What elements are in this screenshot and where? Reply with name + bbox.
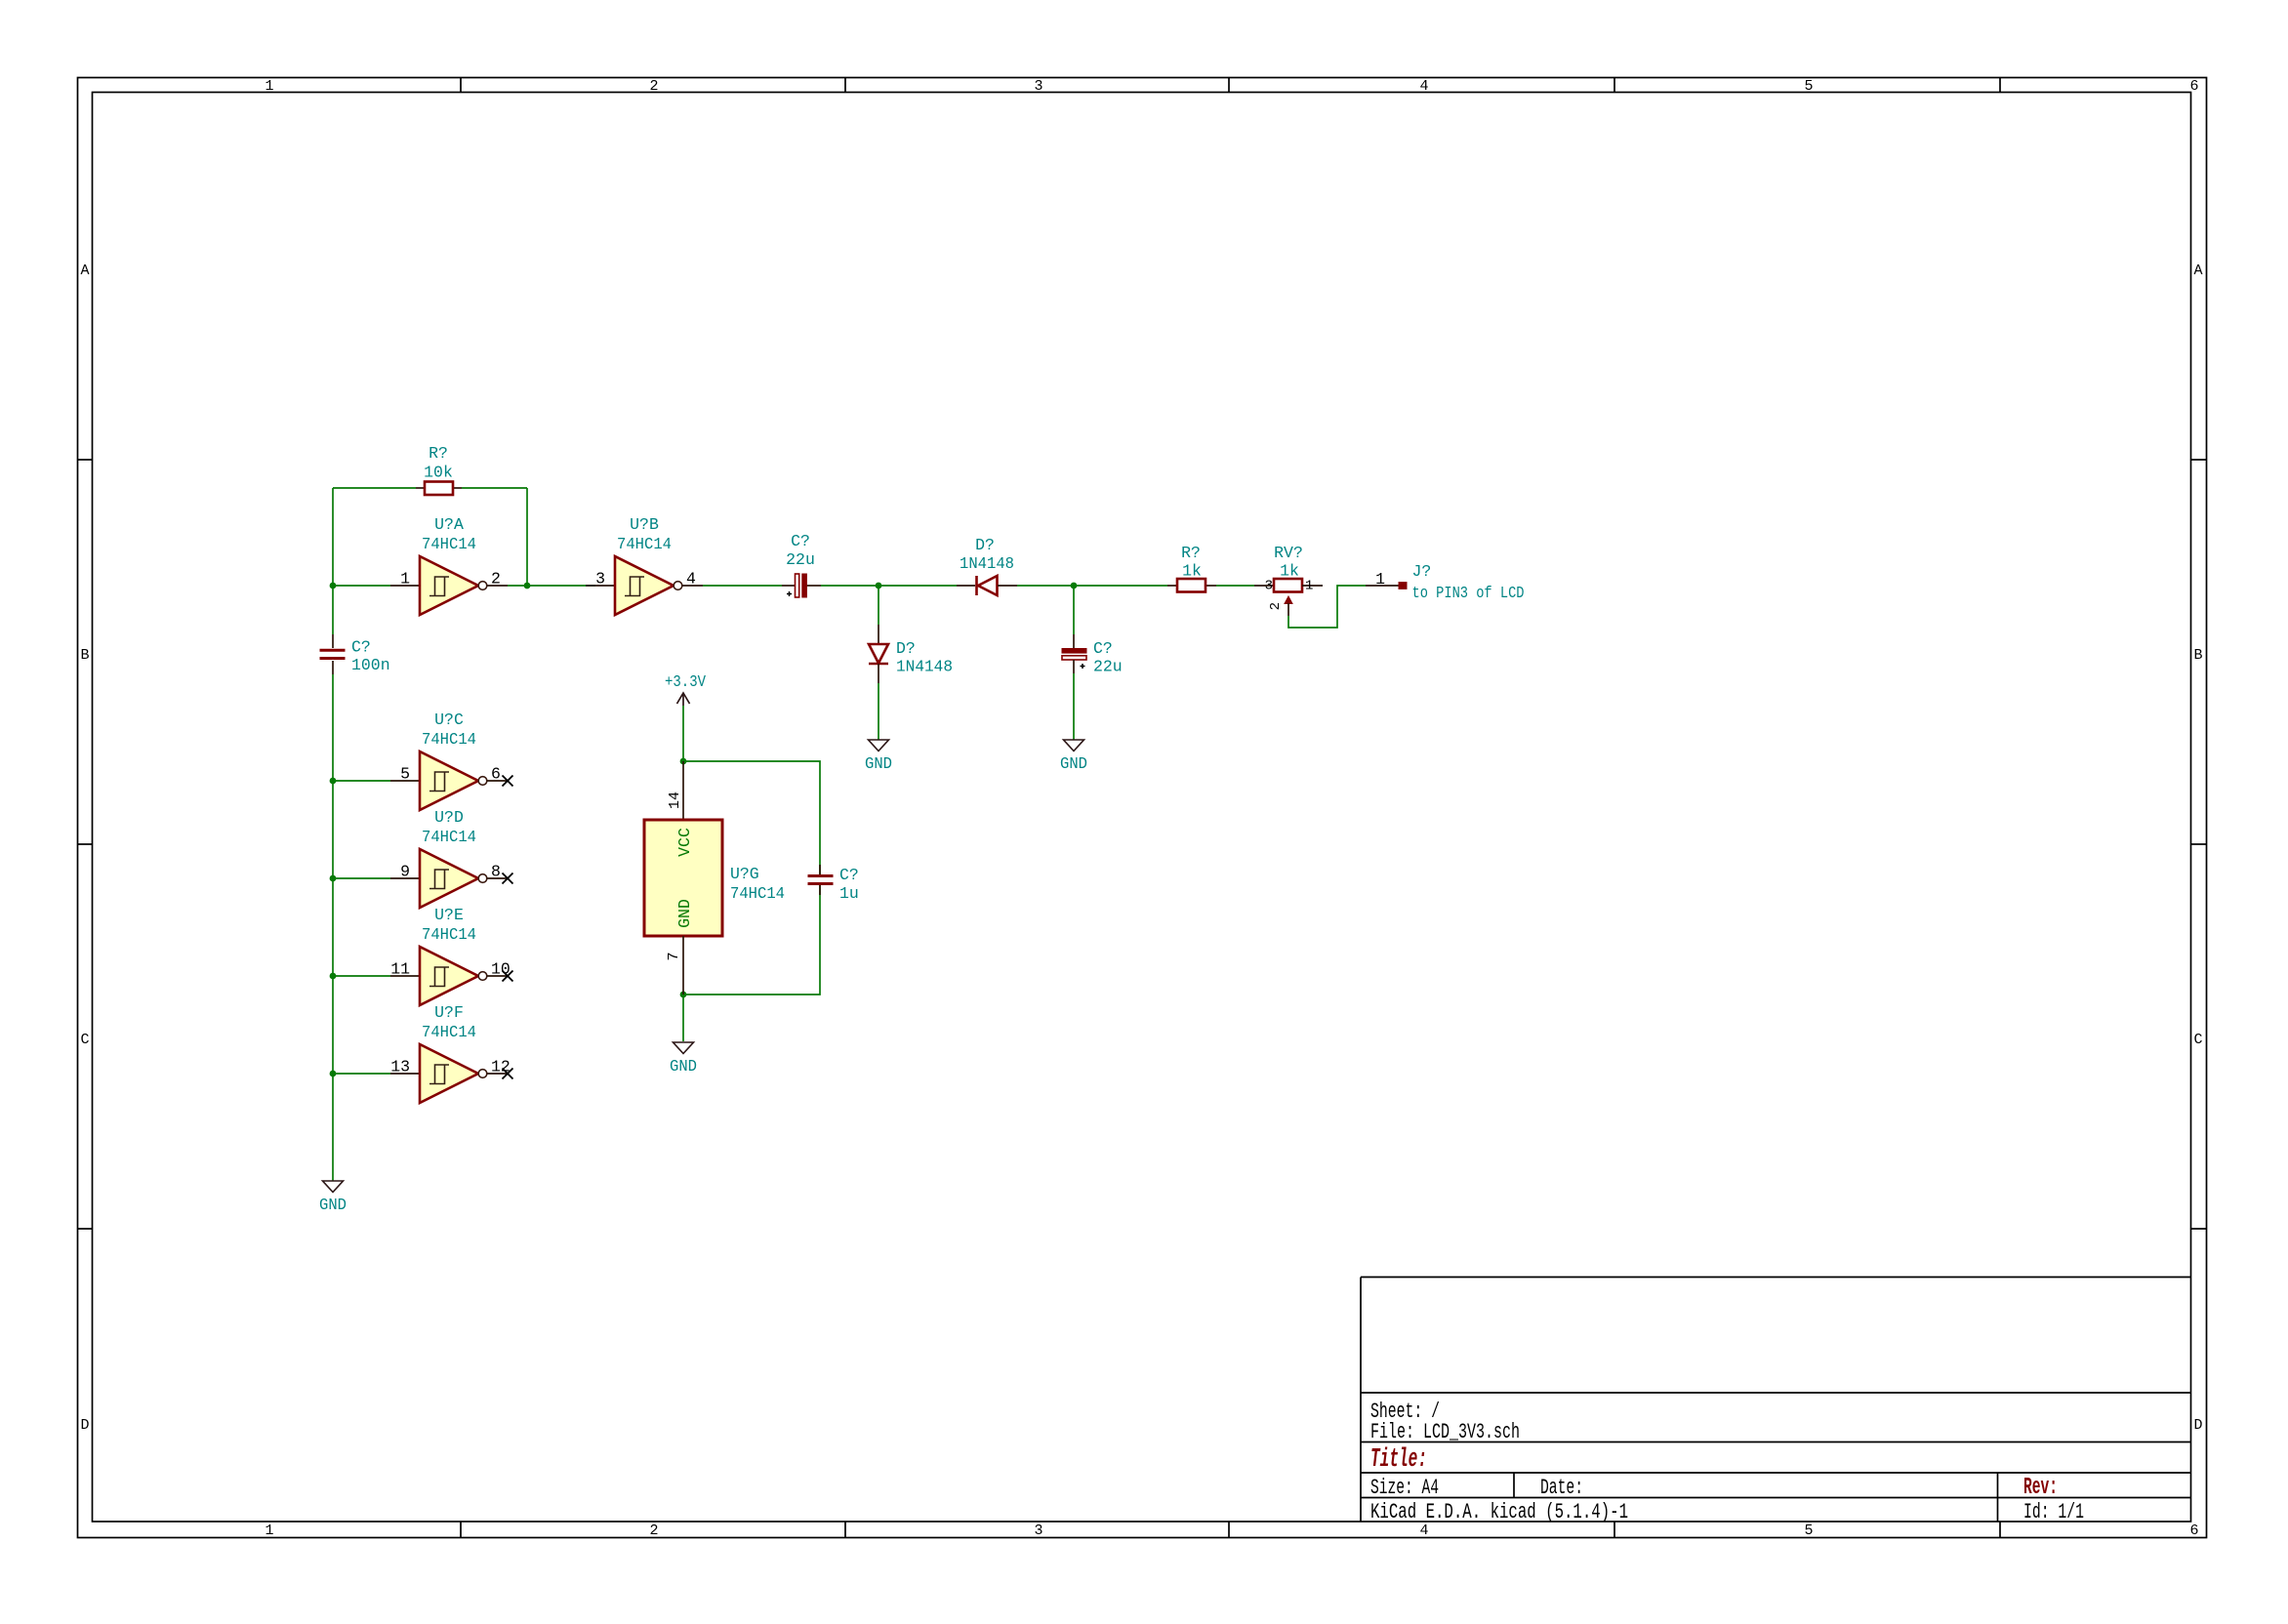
svg-text:C?: C? <box>1093 639 1113 658</box>
svg-text:VCC: VCC <box>675 828 694 857</box>
junction VCC node U?G <box>680 758 687 765</box>
svg-text:22u: 22u <box>1093 658 1123 676</box>
inverter U?A 74HC14 <box>390 515 508 615</box>
svg-text:B: B <box>80 647 89 664</box>
svg-text:Id: 1/1: Id: 1/1 <box>2023 1500 2084 1524</box>
capacitor C? 22u (output filter) <box>1062 634 1123 676</box>
power symbol +3.3V <box>665 672 706 706</box>
wire RV? wiper to J? pin1 <box>1288 586 1366 628</box>
junction GND node U?G <box>680 992 687 998</box>
no-connect x on pin 8 <box>503 873 513 884</box>
svg-text:D?: D? <box>896 639 916 658</box>
svg-text:GND: GND <box>865 754 892 773</box>
svg-text:Title:: Title: <box>1370 1445 1427 1475</box>
svg-text:C: C <box>2193 1032 2202 1048</box>
svg-text:J?: J? <box>1412 562 1432 581</box>
pot pin 1 stub <box>1302 585 1323 587</box>
wire GND node down to GND symbol <box>682 995 684 1041</box>
title block <box>1361 1278 2191 1522</box>
diode D? 1N4148 (vertical) <box>869 625 953 683</box>
svg-text:Rev:: Rev: <box>2023 1475 2058 1501</box>
wire bus to U?C pin5 <box>333 780 390 782</box>
svg-text:D: D <box>2193 1417 2202 1434</box>
svg-text:U?A: U?A <box>434 515 464 534</box>
svg-text:4: 4 <box>1419 78 1428 95</box>
inverter U?E 74HC14 <box>390 906 513 1005</box>
wire bus to U?D pin9 <box>333 877 390 879</box>
junction node B (U?A output) <box>524 583 531 589</box>
wire feedback top left <box>333 487 416 489</box>
svg-text:74HC14: 74HC14 <box>422 535 476 553</box>
wire left vertical bus down to GND <box>332 674 334 1181</box>
wire C? 1u bottom to GND node <box>683 885 820 995</box>
capacitor C? 100n <box>320 634 390 674</box>
capacitor C? 1u (decoupling) <box>808 865 859 903</box>
svg-text:R?: R? <box>1181 544 1201 562</box>
svg-text:1: 1 <box>400 570 410 589</box>
diode D? 1N4148 (horizontal, cathode left) <box>957 536 1017 595</box>
junction node A (osc input) <box>330 583 337 589</box>
svg-text:7: 7 <box>666 952 682 960</box>
svg-text:U?F: U?F <box>434 1003 464 1022</box>
svg-text:R?: R? <box>429 444 448 463</box>
connector J? (to PIN3 of LCD) <box>1366 562 1525 602</box>
svg-text:1: 1 <box>265 78 273 95</box>
svg-text:GND: GND <box>1060 754 1087 773</box>
svg-text:13: 13 <box>390 1058 410 1076</box>
wire branch down to C? 22u vertical <box>1073 586 1075 634</box>
svg-text:9: 9 <box>400 863 410 881</box>
svg-text:A: A <box>2193 263 2202 279</box>
svg-text:2: 2 <box>649 1522 658 1539</box>
svg-text:5: 5 <box>1804 1522 1813 1539</box>
svg-text:1: 1 <box>265 1522 273 1539</box>
svg-text:C?: C? <box>791 532 810 550</box>
svg-text:C?: C? <box>839 866 859 884</box>
svg-text:Size: A4: Size: A4 <box>1370 1476 1439 1500</box>
pin 7 GND <box>682 936 684 995</box>
svg-text:1k: 1k <box>1280 562 1299 581</box>
wire C? 22u to GND <box>1073 673 1075 740</box>
svg-text:U?E: U?E <box>434 906 464 924</box>
wire bus to U?F pin13 <box>333 1073 390 1075</box>
inverter U?C 74HC14 <box>390 710 513 810</box>
svg-text:1k: 1k <box>1182 562 1202 581</box>
junction bus tap U?F <box>330 1071 337 1077</box>
svg-text:1: 1 <box>1305 579 1313 594</box>
wire node A to U?A pin1 <box>333 585 390 587</box>
capacitor C? 22u (series pump cap) <box>782 532 821 597</box>
junction node D (rectified output) <box>1071 583 1078 589</box>
svg-text:1u: 1u <box>839 884 859 903</box>
wire feedback top right <box>462 487 527 489</box>
svg-text:A: A <box>80 263 89 279</box>
svg-text:2: 2 <box>491 570 501 589</box>
inverter U?D 74HC14 <box>390 808 513 908</box>
svg-text:KiCad E.D.A. kicad (5.1.4)-1: KiCad E.D.A. kicad (5.1.4)-1 <box>1370 1500 1628 1524</box>
svg-text:5: 5 <box>400 765 410 784</box>
svg-text:Date:: Date: <box>1540 1476 1583 1500</box>
ground GND (output cap) <box>1060 740 1087 773</box>
svg-text:74HC14: 74HC14 <box>617 535 672 553</box>
svg-text:14: 14 <box>667 792 683 809</box>
svg-text:74HC14: 74HC14 <box>422 1023 476 1041</box>
svg-text:3: 3 <box>1034 1522 1042 1539</box>
wire U?B out to C? 22u <box>703 585 782 587</box>
svg-text:5: 5 <box>1804 78 1813 95</box>
ground GND (input bus) <box>319 1181 347 1214</box>
svg-text:6: 6 <box>491 765 501 784</box>
svg-text:GND: GND <box>319 1196 347 1214</box>
svg-text:10k: 10k <box>424 464 453 482</box>
svg-text:6: 6 <box>2189 1522 2198 1539</box>
wire C? 22u to D? anode <box>821 585 957 587</box>
junction bus tap U?D <box>330 875 337 882</box>
svg-text:C?: C? <box>351 638 371 657</box>
svg-text:to PIN3 of LCD: to PIN3 of LCD <box>1412 584 1525 602</box>
resistor R? 10k <box>416 444 462 495</box>
svg-text:U?G: U?G <box>730 865 759 883</box>
no-connect x on pin 10 <box>503 971 513 982</box>
svg-text:+3.3V: +3.3V <box>665 672 706 691</box>
svg-text:6: 6 <box>2189 78 2198 95</box>
wire bus to U?E pin11 <box>333 975 390 977</box>
svg-text:C: C <box>80 1032 89 1048</box>
no-connect x on pin 12 <box>503 1069 513 1079</box>
svg-text:B: B <box>2193 647 2202 664</box>
junction node C (pump cap / D?) <box>876 583 882 589</box>
wire left vertical upper <box>332 488 334 634</box>
ground GND (U?G) <box>670 1042 697 1076</box>
svg-text:D: D <box>80 1417 89 1434</box>
svg-text:3: 3 <box>1034 78 1042 95</box>
inverter U?F 74HC14 <box>390 1003 513 1103</box>
svg-text:11: 11 <box>390 960 410 979</box>
svg-text:File: LCD_3V3.sch: File: LCD_3V3.sch <box>1370 1420 1520 1444</box>
svg-text:8: 8 <box>491 863 501 881</box>
svg-text:2: 2 <box>649 78 658 95</box>
svg-text:U?B: U?B <box>630 515 659 534</box>
inverter U?B 74HC14 <box>586 515 703 615</box>
svg-text:2: 2 <box>1268 602 1284 610</box>
pot wiper arrow pin 2 <box>1285 596 1292 604</box>
svg-text:3: 3 <box>1265 579 1273 594</box>
svg-text:100n: 100n <box>351 656 390 674</box>
svg-text:1N4148: 1N4148 <box>896 658 953 676</box>
svg-text:GND: GND <box>670 1057 697 1076</box>
wire VCC node to C? 1u top <box>683 761 820 874</box>
svg-text:74HC14: 74HC14 <box>422 828 476 846</box>
svg-text:74HC14: 74HC14 <box>730 884 785 903</box>
svg-text:22u: 22u <box>786 550 815 569</box>
wire +3.3V to node VCC <box>682 706 684 761</box>
svg-text:1N4148: 1N4148 <box>960 554 1014 573</box>
wire feedback right vertical <box>526 488 528 586</box>
wire R? 1k to RV? <box>1216 585 1254 587</box>
svg-text:1: 1 <box>1375 570 1385 589</box>
wire branch down to D? vertical <box>878 586 879 625</box>
junction bus tap U?C <box>330 778 337 785</box>
no-connect x on pin 6 <box>503 776 513 787</box>
wire D? cathode to R? 1k <box>1017 585 1167 587</box>
svg-text:4: 4 <box>1419 1522 1428 1539</box>
IC power unit U?G 74HC14 <box>644 761 785 995</box>
svg-text:U?C: U?C <box>434 710 464 729</box>
svg-text:RV?: RV? <box>1274 544 1303 562</box>
svg-text:74HC14: 74HC14 <box>422 925 476 944</box>
svg-text:3: 3 <box>595 570 605 589</box>
svg-text:GND: GND <box>675 899 694 928</box>
wire U?A out to U?B in <box>508 585 595 587</box>
svg-text:D?: D? <box>975 536 995 554</box>
potentiometer RV? 1k <box>1254 544 1323 616</box>
svg-text:U?D: U?D <box>434 808 464 827</box>
ground GND (D? vertical) <box>865 740 892 773</box>
svg-text:74HC14: 74HC14 <box>422 730 476 749</box>
svg-text:4: 4 <box>686 570 696 589</box>
wire D? vertical to GND <box>878 683 879 740</box>
resistor R? 1k <box>1167 544 1216 592</box>
junction bus tap U?E <box>330 973 337 980</box>
pin 14 VCC <box>682 761 684 820</box>
